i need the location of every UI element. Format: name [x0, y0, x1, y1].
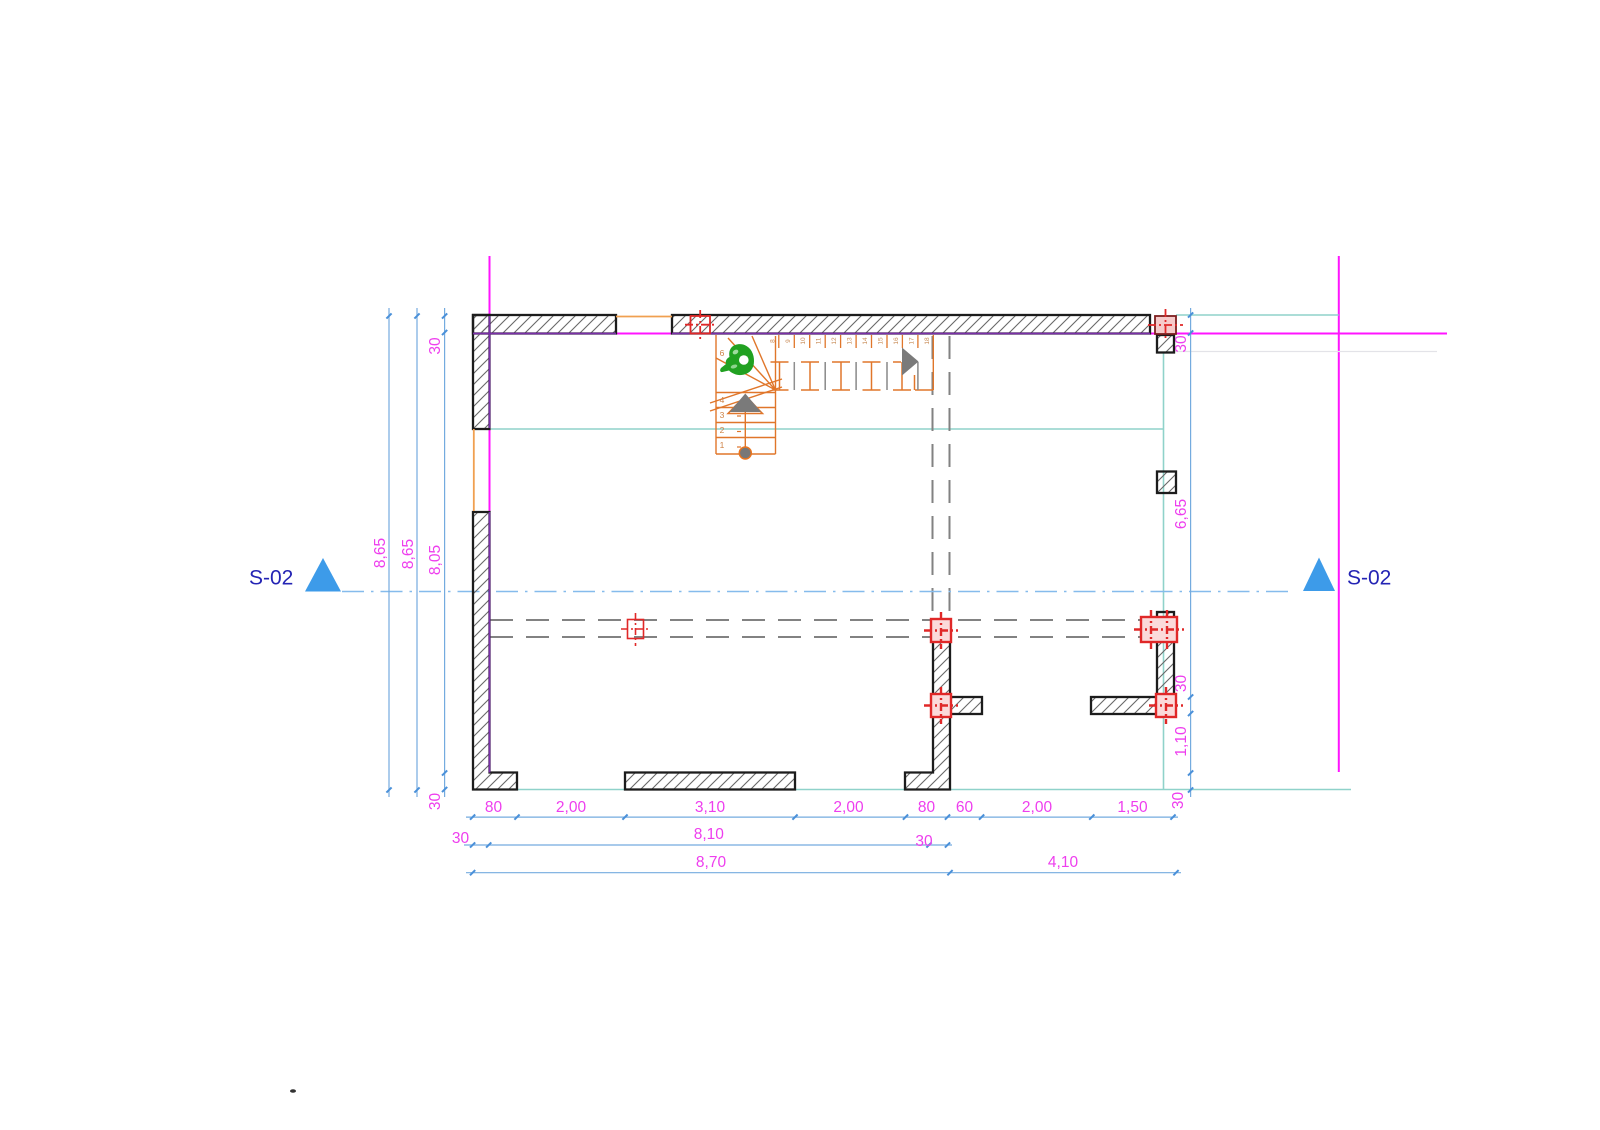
- svg-text:8,65: 8,65: [400, 539, 417, 569]
- svg-text:6: 6: [720, 348, 725, 358]
- svg-text:1,10: 1,10: [1173, 726, 1190, 757]
- svg-text:30: 30: [1173, 335, 1190, 353]
- svg-text:30: 30: [452, 830, 470, 847]
- svg-text:60: 60: [956, 799, 974, 816]
- svg-text:2,00: 2,00: [556, 799, 587, 816]
- svg-text:3: 3: [720, 410, 725, 420]
- svg-text:16: 16: [893, 337, 900, 345]
- svg-text:30: 30: [915, 833, 933, 850]
- svg-text:4,10: 4,10: [1048, 854, 1079, 871]
- svg-text:30: 30: [1173, 675, 1190, 693]
- svg-text:14: 14: [862, 337, 869, 345]
- svg-text:3,10: 3,10: [695, 799, 726, 816]
- svg-text:15: 15: [878, 337, 885, 345]
- svg-text:80: 80: [485, 799, 503, 816]
- svg-text:1,50: 1,50: [1117, 799, 1148, 816]
- svg-text:1: 1: [720, 440, 725, 450]
- svg-text:9: 9: [785, 339, 792, 343]
- svg-text:8,70: 8,70: [696, 854, 727, 871]
- svg-text:2: 2: [720, 425, 725, 435]
- svg-text:80: 80: [918, 799, 936, 816]
- svg-text:4: 4: [720, 395, 725, 405]
- svg-text:8,05: 8,05: [427, 545, 444, 575]
- svg-text:S-02: S-02: [1347, 567, 1391, 590]
- svg-text:13: 13: [847, 337, 854, 345]
- svg-text:8,10: 8,10: [694, 826, 725, 843]
- svg-text:17: 17: [908, 337, 915, 345]
- svg-text:S-02: S-02: [249, 567, 293, 590]
- svg-text:18: 18: [924, 337, 931, 345]
- svg-text:12: 12: [831, 337, 838, 345]
- svg-text:10: 10: [800, 337, 807, 345]
- svg-text:30: 30: [1170, 792, 1187, 810]
- svg-text:8: 8: [770, 339, 777, 343]
- svg-text:8,65: 8,65: [372, 538, 389, 568]
- svg-text:30: 30: [427, 793, 444, 811]
- svg-text:11: 11: [816, 337, 823, 344]
- svg-text:6,65: 6,65: [1173, 499, 1190, 529]
- svg-text:2,00: 2,00: [1022, 799, 1053, 816]
- svg-text:30: 30: [427, 337, 444, 355]
- svg-text:2,00: 2,00: [833, 799, 864, 816]
